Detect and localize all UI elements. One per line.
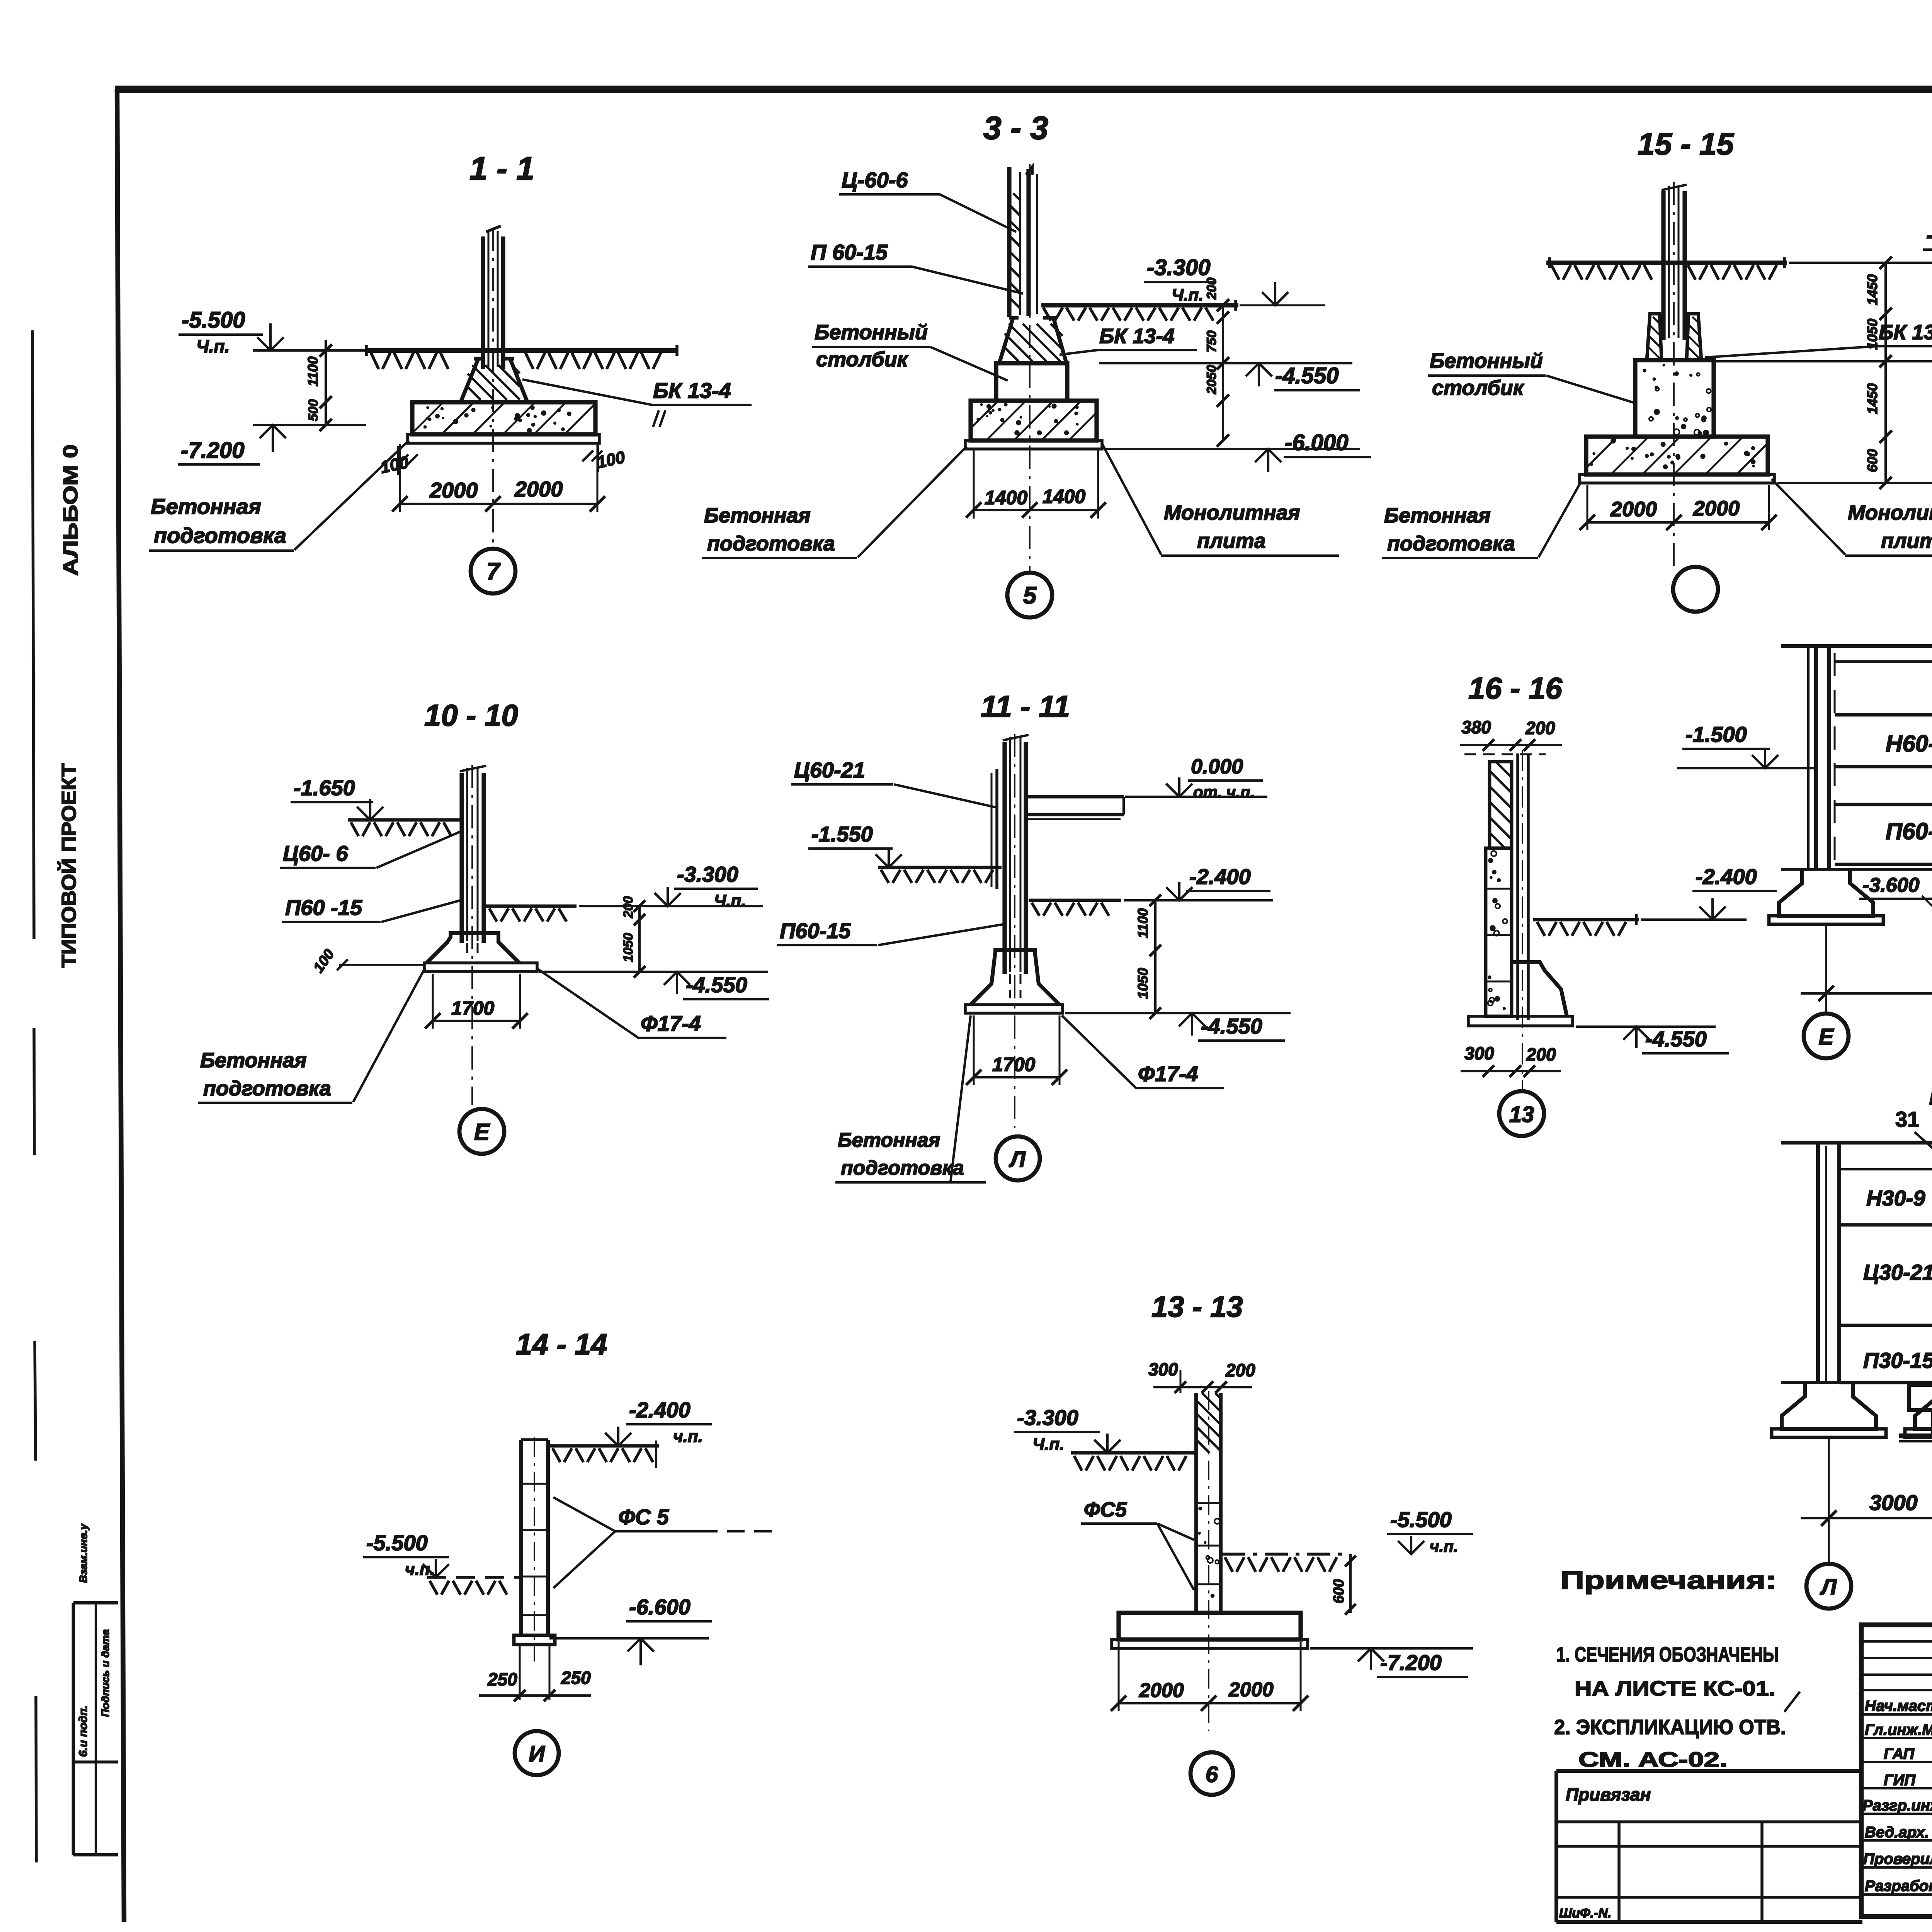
- section 16-16 lean pad: [1468, 1016, 1573, 1026]
- svg-text:2000: 2000: [1610, 498, 1657, 521]
- elevation 1 central monolith: [1899, 1385, 1932, 1441]
- section 11-11 left ground line: [878, 867, 1002, 883]
- svg-text:6.и подп.: 6.и подп.: [77, 1705, 90, 1757]
- section 3-3 bottom dimension 1400 1400: [966, 450, 1106, 519]
- svg-text:5: 5: [1023, 582, 1037, 609]
- section 16-16 wall blocks: [1486, 848, 1512, 1016]
- section 3-3 title: [983, 110, 1048, 146]
- svg-text:2000: 2000: [514, 477, 563, 501]
- section 13-13 upper ground line: [1071, 1453, 1195, 1471]
- label Ф17-4: [538, 969, 726, 1038]
- svg-text:Ф17-4: Ф17-4: [1138, 1061, 1198, 1086]
- section 11-11 column: [1003, 735, 1029, 974]
- panel label Н60-12: [1886, 731, 1932, 757]
- svg-text:-1.650: -1.650: [294, 776, 355, 800]
- axis circle 6: [1190, 1752, 1233, 1795]
- svg-text:0.000: 0.000: [1191, 755, 1243, 778]
- svg-text:Бетонная: Бетонная: [704, 504, 811, 527]
- notes heading Примечания: [1560, 1566, 1777, 1594]
- svg-text:П 60-15: П 60-15: [811, 240, 888, 264]
- svg-text:ч.п.: ч.п.: [1430, 1537, 1458, 1555]
- section 15-15 footing slab: [1586, 437, 1768, 474]
- section 10-10 title: [424, 698, 518, 732]
- section 10-10 right dim line: [621, 896, 645, 978]
- section 16-16 top dimension 380 200: [1460, 717, 1562, 751]
- section 13-13 right dim 600: [1331, 1554, 1356, 1615]
- label Ф17-4 (11-11): [1062, 1015, 1224, 1088]
- section 11-11 floor slab right: [1028, 797, 1124, 819]
- section 3-3 centerline: [1029, 164, 1031, 572]
- small table Привязан: [1556, 1771, 1862, 1922]
- note 2 line 2: [1578, 1748, 1728, 1771]
- svg-text:Ц60-21: Ц60-21: [794, 758, 865, 782]
- svg-text:подготовка: подготовка: [203, 1077, 331, 1100]
- label ФС 5 (14-14): [553, 1497, 775, 1588]
- title block frame: [1861, 1625, 1932, 1917]
- elevation 13 bay Е-Ж panel lines: [1835, 662, 1932, 864]
- section 15-15 centerline: [1673, 182, 1675, 566]
- svg-text:200: 200: [1225, 1360, 1255, 1380]
- level mark -4.550 (3-3): [1099, 363, 1360, 390]
- svg-text:14 - 14: 14 - 14: [516, 1328, 607, 1361]
- label БК 13-4 (3-3): [1060, 325, 1197, 355]
- level mark -3.300 (13-13): [1014, 1405, 1121, 1454]
- foundation hat axis Л (elev 1): [1772, 1383, 1886, 1437]
- svg-text:-3.300: -3.300: [1017, 1405, 1078, 1430]
- section 15-15 right dim line: [1864, 257, 1892, 489]
- elevation 1 foundation level line: [1781, 1381, 1932, 1384]
- section 11-11 wall panel edge: [992, 769, 997, 889]
- svg-text:1100: 1100: [305, 357, 321, 386]
- svg-text:2000: 2000: [1139, 1679, 1184, 1702]
- panel label П30-15 (elev 1): [1863, 1348, 1932, 1372]
- section 16-16 wall hatched: [1464, 754, 1546, 848]
- axis circle 5: [1007, 573, 1052, 617]
- level mark -3.300 (3-3): [1144, 255, 1325, 305]
- level mark -2.400 (15-15): [1789, 223, 1932, 271]
- label Бетонная подготовка (11-11): [835, 1015, 986, 1182]
- svg-text:-3.300: -3.300: [1147, 255, 1210, 280]
- axis circle И (14-14): [515, 1731, 559, 1775]
- svg-text:1450: 1450: [1864, 383, 1880, 414]
- svg-text:Гл.инж.М.: Гл.инж.М.: [1865, 1721, 1932, 1738]
- dimension 100 right: [582, 442, 627, 472]
- svg-text:плита: плита: [1197, 529, 1266, 553]
- section 1-1 bottom dimension line 2000 2000: [392, 444, 605, 512]
- section 14-14 title: [516, 1328, 607, 1361]
- section 10-10 bottom dimension 1700: [425, 974, 528, 1029]
- svg-text:3 - 3: 3 - 3: [983, 110, 1048, 146]
- svg-text:-5.500: -5.500: [1390, 1507, 1452, 1532]
- svg-text:Бетонная: Бетонная: [200, 1049, 307, 1072]
- svg-text:-2.400: -2.400: [1189, 864, 1251, 889]
- section 3-3 footing cup БК13-4: [999, 318, 1066, 363]
- svg-text:-6.600: -6.600: [629, 1595, 690, 1619]
- section 13-13 wall: [1196, 1391, 1221, 1731]
- svg-text:300: 300: [1464, 1043, 1494, 1063]
- axis circle 13 (16-16): [1499, 1091, 1544, 1136]
- svg-text:-4.550: -4.550: [1201, 1014, 1262, 1038]
- level mark -6.600 (15-15): [1777, 470, 1932, 506]
- level mark -4.550 (15-15): [1716, 361, 1932, 389]
- section 15-15 concrete pier: [1635, 360, 1714, 437]
- svg-text:Л: Л: [1820, 1575, 1837, 1600]
- svg-text:2000: 2000: [1693, 497, 1740, 520]
- svg-text:-7.200: -7.200: [1380, 1650, 1442, 1675]
- svg-text:БК 13-4: БК 13-4: [653, 378, 731, 403]
- svg-text:Бетонная: Бетонная: [151, 494, 261, 519]
- svg-text:380: 380: [1461, 717, 1491, 737]
- level mark -3.600: [1859, 874, 1932, 909]
- level mark -5.500 (14-14): [363, 1531, 449, 1579]
- level mark -1.550: [808, 822, 902, 867]
- title block staff row Вед.арх Панферов: [1865, 1824, 1932, 1841]
- svg-text:Бетонная: Бетонная: [838, 1129, 940, 1151]
- section 13-13 footing slab: [1119, 1613, 1301, 1639]
- svg-text:2000: 2000: [1228, 1679, 1274, 1701]
- section 3-3 wall panels above: [1009, 166, 1037, 317]
- svg-text:Ч.п.: Ч.п.: [714, 891, 746, 910]
- title block staff row Разгр.инж Логинова: [1862, 1797, 1932, 1814]
- svg-text:Проверил: Проверил: [1863, 1850, 1932, 1867]
- svg-text:Взам.инв.у: Взам.инв.у: [77, 1523, 89, 1583]
- svg-text:Бетонная: Бетонная: [1384, 504, 1491, 527]
- svg-text:НА ЛИСТЕ КС-01.: НА ЛИСТЕ КС-01.: [1575, 1677, 1776, 1700]
- section 3-3 footing slab: [971, 401, 1097, 440]
- svg-text:П60-15: П60-15: [780, 918, 851, 943]
- svg-text:31: 31: [1895, 1107, 1919, 1131]
- svg-text:столбик: столбик: [1432, 376, 1525, 400]
- svg-text:ч.п.: ч.п.: [673, 1427, 703, 1446]
- svg-text:-4.550: -4.550: [686, 973, 747, 997]
- level mark -3.300 (10-10): [579, 862, 763, 910]
- svg-text:подготовка: подготовка: [841, 1157, 964, 1179]
- svg-text:Разработ: Разработ: [1865, 1878, 1932, 1895]
- sheet top border line: [115, 86, 1932, 93]
- section 10-10 foundation Ф17-4: [427, 933, 519, 963]
- section 13-13 top dims 300 200: [1148, 1359, 1255, 1393]
- level mark -2.400 (16-16): [1641, 864, 1777, 920]
- svg-text:-5.500: -5.500: [182, 308, 245, 333]
- svg-text:16 - 16: 16 - 16: [1468, 671, 1562, 705]
- svg-text:Вед.арх.: Вед.арх.: [1865, 1824, 1929, 1841]
- elevation 1 pilaster axis Л: [1818, 1143, 1839, 1383]
- label Ц60-21: [791, 758, 997, 808]
- label Бетонный столбик: [812, 321, 1008, 381]
- level mark -4.550 (11-11): [1065, 1013, 1291, 1041]
- axis circle 7: [471, 549, 515, 594]
- svg-text:750: 750: [1204, 330, 1219, 352]
- section 14-14 base: [514, 1635, 555, 1645]
- svg-text:Привязан: Привязан: [1566, 1784, 1651, 1804]
- section 16-16 ground line: [1533, 914, 1639, 936]
- section 15-15 footing cup БК13-4: [1647, 314, 1701, 360]
- elevation 1 title: [1929, 1078, 1932, 1111]
- section 1-1 lean concrete pad: [408, 434, 599, 443]
- section 1-1 left dim line: [305, 340, 332, 431]
- section 15-15 title: [1638, 127, 1735, 161]
- section 11-11 bottom dimension 1700: [966, 1015, 1067, 1085]
- section 1-1 title: [469, 150, 534, 187]
- section 1-1 column: [483, 226, 503, 369]
- svg-text:200: 200: [1525, 718, 1555, 738]
- svg-text:БК 13-4: БК 13-4: [1099, 325, 1175, 348]
- section 1-1 centerline: [492, 228, 494, 549]
- svg-text:600: 600: [1331, 1579, 1347, 1604]
- svg-text:2050: 2050: [1204, 365, 1219, 395]
- svg-text:300: 300: [1148, 1359, 1178, 1379]
- svg-text:Бетонный: Бетонный: [1430, 349, 1543, 372]
- svg-text:-1.500: -1.500: [1685, 722, 1747, 747]
- svg-text:Н30-9: Н30-9: [1866, 1186, 1925, 1210]
- title block staff row Проверил Милковский: [1863, 1850, 1932, 1867]
- foundation hat axis К (elev 1): [1905, 1383, 1932, 1437]
- level mark -2.400 (14-14): [605, 1398, 712, 1446]
- label Бетонная подготовка (3-3): [702, 446, 967, 558]
- section 14-14 lower ground line: [427, 1577, 520, 1595]
- axis circle Е (10-10): [459, 1109, 504, 1154]
- level mark -7.200: [178, 425, 366, 464]
- panel label Н30-9 (elev 1): [1866, 1186, 1925, 1210]
- svg-text:Монолитная: Монолитная: [1164, 501, 1300, 524]
- svg-text:2. ЭКСПЛИКАЦИЮ ОТВ.: 2. ЭКСПЛИКАЦИЮ ОТВ.: [1554, 1716, 1786, 1739]
- svg-text:Е: Е: [474, 1119, 490, 1145]
- level mark 0.000: [1125, 755, 1267, 801]
- section 10-10 column: [460, 766, 486, 943]
- svg-text:И: И: [529, 1742, 545, 1767]
- section 14-14 bottom dims 250 250: [479, 1645, 591, 1701]
- section 11-11 right dim line: [1135, 895, 1161, 1019]
- title block staff row ГАП Шумов: [1884, 1745, 1932, 1762]
- svg-text:П60-15: П60-15: [1886, 818, 1932, 844]
- svg-text:Развертка стены по оси „1“: Развертка стены по оси „1“: [1929, 1078, 1932, 1111]
- svg-text:1700: 1700: [451, 997, 494, 1019]
- section 13-13 bottom dimension 2000 2000: [1111, 1642, 1308, 1711]
- svg-text:подготовка: подготовка: [707, 532, 835, 555]
- level mark -6.000 (3-3): [1104, 430, 1371, 472]
- svg-text:-4.550: -4.550: [1645, 1027, 1707, 1051]
- svg-text:Монолитная: Монолитная: [1848, 501, 1932, 524]
- label П60-15 (11-11): [777, 918, 1003, 945]
- section 1-1 ground hatch: [371, 353, 661, 369]
- svg-text:П30-15: П30-15: [1863, 1348, 1932, 1372]
- svg-text:-4.550: -4.550: [1275, 363, 1338, 388]
- section 16-16 column lines: [1518, 753, 1528, 1020]
- label Ц60-6 (10-10): [280, 832, 461, 868]
- svg-text:ФС 5: ФС 5: [618, 1505, 669, 1529]
- foundation hat axis Е (elev 13): [1769, 869, 1883, 924]
- label Бетонный столбик (15-15): [1428, 349, 1634, 403]
- detail leader 31: [1895, 1107, 1932, 1240]
- section 3-3 right dim line: [1204, 277, 1229, 447]
- svg-text:1050: 1050: [621, 933, 636, 962]
- section 11-11 lean pad: [965, 1005, 1063, 1013]
- section 3-3 lean concrete pad: [965, 440, 1102, 449]
- section 16-16 title: [1468, 671, 1562, 705]
- section 14-14 wall: [521, 1437, 548, 1662]
- section 11-11 centerline: [1014, 734, 1015, 1128]
- svg-text:-1.550: -1.550: [811, 822, 873, 846]
- svg-text:Ц60- 6: Ц60- 6: [283, 841, 348, 866]
- level mark -1.650: [291, 776, 383, 820]
- label Монолитная плита (15-15): [1772, 479, 1932, 556]
- section 11-11 lower ground right: [1029, 900, 1121, 916]
- svg-text:1 - 1: 1 - 1: [469, 150, 534, 187]
- level mark -5.500 (13-13): [1387, 1507, 1473, 1555]
- svg-text:-3.600: -3.600: [1862, 874, 1920, 896]
- label Ц-60-6: [839, 168, 1016, 232]
- svg-text:Разгр.инж: Разгр.инж: [1862, 1797, 1932, 1814]
- level mark -6.600 (14-14): [549, 1595, 712, 1665]
- section 15-15 ground line: [1546, 257, 1787, 280]
- svg-text:1. СЕЧЕНИЯ ОБОЗНАЧЕНЫ: 1. СЕЧЕНИЯ ОБОЗНАЧЕНЫ: [1556, 1643, 1779, 1666]
- svg-text:250: 250: [561, 1668, 591, 1688]
- dimension 100 rotated (10-10): [310, 946, 423, 976]
- svg-text:ГАП: ГАП: [1884, 1745, 1915, 1762]
- svg-text:ТИПОВОЙ ПРОЕКТ: ТИПОВОЙ ПРОЕКТ: [58, 763, 80, 968]
- svg-text:столбик: столбик: [816, 348, 909, 371]
- note 2 tick: [1784, 1692, 1800, 1712]
- title block left rows: [1861, 1641, 1932, 1895]
- elevation 1 top line: [1781, 1136, 1932, 1143]
- section 16-16 centerline: [1522, 750, 1523, 1090]
- svg-text:ШиФ.-N.: ШиФ.-N.: [1559, 1906, 1611, 1920]
- svg-text:Примечания:: Примечания:: [1560, 1566, 1777, 1594]
- label Монолитная плита: [1102, 444, 1339, 556]
- svg-text:-3.300: -3.300: [677, 862, 738, 886]
- section 1-1 footing slab: [412, 402, 595, 434]
- section 13-13 title: [1151, 1291, 1243, 1323]
- label Бетонная подготовка (10-10): [198, 968, 425, 1103]
- svg-text:250: 250: [487, 1669, 517, 1689]
- axis circle Л (elev 1): [1806, 1564, 1851, 1609]
- svg-text:ФС5: ФС5: [1084, 1498, 1127, 1521]
- svg-text:Ц-60-6: Ц-60-6: [842, 168, 908, 192]
- level mark -4.550 (10-10): [539, 972, 769, 999]
- svg-text:2000: 2000: [429, 478, 478, 502]
- svg-text:Бетонный: Бетонный: [815, 321, 928, 344]
- svg-text:11 - 11: 11 - 11: [981, 689, 1070, 723]
- svg-text:1050: 1050: [1864, 319, 1880, 350]
- svg-text:6: 6: [1206, 1762, 1218, 1787]
- section 11-11 title: [981, 689, 1070, 723]
- svg-text:-2.400: -2.400: [1696, 864, 1757, 889]
- svg-text:П60 -15: П60 -15: [285, 895, 362, 920]
- svg-text:Ч.п.: Ч.п.: [196, 336, 230, 356]
- svg-text:-2.400: -2.400: [1926, 223, 1932, 248]
- section 13-13 lean pad: [1112, 1639, 1308, 1648]
- panel label Ц30-21 (elev 1): [1863, 1260, 1932, 1284]
- left margin label АЛЬБОМ 0: [60, 444, 82, 576]
- label ФС5 (13-13): [1081, 1498, 1194, 1590]
- section 14-14 upper ground line: [549, 1440, 659, 1468]
- section 10-10 upper ground line: [348, 820, 461, 836]
- svg-text:Л: Л: [1009, 1147, 1026, 1172]
- elevation 1 dimension line 3000 3000 3000 6000: [1801, 1490, 1932, 1526]
- svg-text:500: 500: [306, 399, 321, 421]
- section 15-15 column: [1662, 185, 1687, 340]
- label БК 13-4: [522, 378, 752, 427]
- elevation 1 axis extension lines: [1829, 1383, 1932, 1564]
- svg-text:15 - 15: 15 - 15: [1638, 127, 1735, 161]
- svg-text:13 - 13: 13 - 13: [1151, 1291, 1243, 1323]
- section 16-16 bottom dimension 300 200: [1461, 1043, 1561, 1077]
- section 10-10 lower ground line: [486, 906, 577, 922]
- svg-text:Ч.п.: Ч.п.: [1172, 286, 1203, 304]
- section 1-1 column footing cup БК13-4: [461, 359, 527, 402]
- title block staff row Гл.инж.М Кричевский: [1865, 1721, 1932, 1738]
- elevation 13 foundation level line: [1781, 868, 1932, 871]
- svg-text:Ц30-21: Ц30-21: [1863, 1260, 1932, 1284]
- svg-text:-2.400: -2.400: [629, 1398, 690, 1422]
- svg-text:Е: Е: [1819, 1024, 1835, 1049]
- svg-text:подготовка: подготовка: [154, 523, 286, 548]
- elevation 1 bay Л-К panel lines: [1839, 1169, 1932, 1383]
- svg-text:1700: 1700: [992, 1054, 1035, 1075]
- svg-text:200: 200: [621, 896, 636, 918]
- elevation 13 top line: [1781, 640, 1932, 646]
- section 13-13 lower ground line: [1222, 1554, 1343, 1572]
- section 3-3 floor line right: [1041, 300, 1238, 321]
- svg-text:1100: 1100: [1135, 908, 1151, 938]
- svg-text:Н60-12: Н60-12: [1886, 731, 1932, 757]
- svg-text:-6.000: -6.000: [1285, 430, 1348, 455]
- level mark -4.550 (16-16): [1576, 1027, 1729, 1053]
- sheet left border line: [117, 89, 124, 1922]
- elevation 13 pilaster axis Е: [1808, 646, 1835, 869]
- note 1 line 1: [1556, 1643, 1779, 1666]
- section 3-3 concrete post: [996, 363, 1067, 401]
- title block staff row ГИП Милковский: [1884, 1772, 1932, 1789]
- panel label П60-15: [1886, 818, 1932, 844]
- svg-text:200: 200: [1204, 277, 1219, 300]
- axis circle Л: [996, 1136, 1040, 1180]
- svg-text:подготовка: подготовка: [1387, 532, 1515, 555]
- section 10-10 lean pad: [424, 963, 537, 971]
- level mark -5.500: [179, 308, 367, 356]
- svg-text:ГИП: ГИП: [1884, 1772, 1916, 1789]
- svg-text:1400: 1400: [985, 487, 1027, 509]
- svg-text:10 - 10: 10 - 10: [424, 698, 518, 732]
- svg-text:Нач.маст: Нач.маст: [1865, 1697, 1932, 1714]
- svg-text:Ч.п.: Ч.п.: [1032, 1435, 1064, 1454]
- svg-text:от. ч.п.: от. ч.п.: [1193, 783, 1255, 801]
- svg-text:АЛЬБОМ 0: АЛЬБОМ 0: [60, 444, 82, 576]
- section 15-15 bottom dimension 2000 2000: [1580, 485, 1777, 530]
- level mark -1.500 (elev 13): [1677, 722, 1816, 768]
- svg-text:плита: плита: [1881, 529, 1932, 553]
- section 15-15 lean concrete pad: [1580, 474, 1774, 483]
- axis circle (15-15): [1673, 567, 1718, 612]
- svg-text:СМ. АС-02.: СМ. АС-02.: [1578, 1748, 1728, 1771]
- section 16-16 foundation: [1513, 962, 1567, 1016]
- title block staff row Нач.маст Шестопалов: [1865, 1697, 1932, 1714]
- label П 60-15: [808, 240, 1023, 294]
- left margin label ТИПОВОЙ ПРОЕКТ: [58, 763, 80, 968]
- note 2 line 1: [1554, 1716, 1786, 1739]
- svg-text:3000: 3000: [1869, 1490, 1918, 1515]
- svg-text:1450: 1450: [1864, 274, 1880, 305]
- level mark -2.400 (11-11): [1124, 864, 1273, 900]
- svg-text:200: 200: [1526, 1044, 1556, 1065]
- axis circle Е (elev 13): [1804, 993, 1849, 1058]
- title block staff row Разработ Ведяшова: [1865, 1878, 1932, 1895]
- svg-text:Ф17-4: Ф17-4: [641, 1011, 701, 1036]
- svg-text:13: 13: [1509, 1102, 1534, 1127]
- elevation 13 dimension line 6000 3000 3000 3000: [1801, 964, 1932, 1001]
- section 10-10 centerline: [471, 765, 473, 1105]
- label Бетонная подготовка (15-15): [1382, 481, 1581, 558]
